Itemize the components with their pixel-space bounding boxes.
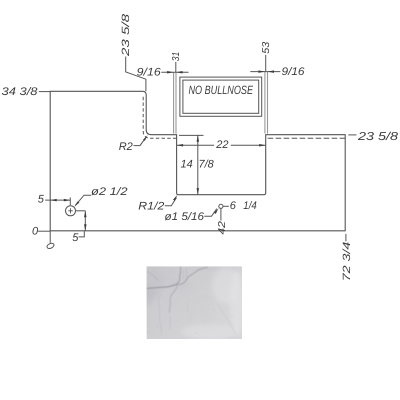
svg-text:31: 31: [171, 52, 182, 62]
dimension 14 7/8: [179, 135, 215, 194]
svg-text:ø1 5/16: ø1 5/16: [165, 211, 205, 223]
svg-text:7/8: 7/8: [199, 159, 215, 171]
svg-text:23 5/8: 23 5/8: [120, 14, 132, 58]
svg-text:6: 6: [230, 200, 237, 212]
dimension 22: [177, 139, 266, 151]
svg-text:R2: R2: [119, 141, 133, 153]
label 23 5/8 right: [348, 131, 398, 143]
hole 6 1/4 circle: [219, 200, 257, 212]
ordinate 42: [217, 208, 228, 234]
label R1/2 with leader: [138, 195, 177, 213]
svg-text:72 3/4: 72 3/4: [341, 242, 353, 282]
svg-text:23 5/8: 23 5/8: [357, 131, 399, 143]
marble sample swatch: [142, 264, 244, 340]
label R2 with leader: [119, 135, 148, 153]
dimension 9/16 right: [250, 66, 305, 78]
svg-text:14: 14: [181, 159, 193, 171]
svg-text:R1/2: R1/2: [138, 201, 164, 213]
hidden edge dashed left (R2 corner): [143, 97, 176, 139]
ordinate 0 origin: [32, 225, 55, 249]
hidden edge dashed right: [268, 137, 346, 139]
svg-text:5: 5: [72, 232, 79, 244]
countertop main outline: [50, 91, 345, 231]
label 72 3/4 rotated: [341, 234, 353, 281]
label 31 rotated: [171, 52, 182, 73]
svg-text:5: 5: [38, 194, 45, 206]
faucet hole circle: [66, 206, 76, 216]
label 34 3/8: [2, 86, 51, 98]
svg-text:22: 22: [215, 139, 228, 151]
label 53 rotated: [261, 41, 272, 71]
svg-text:9/16: 9/16: [137, 66, 162, 78]
svg-text:1/4: 1/4: [243, 200, 256, 212]
NO BULLNOSE box: [180, 77, 262, 116]
svg-text:42: 42: [217, 221, 228, 235]
label o2 1/2 with leader: [74, 186, 127, 207]
svg-text:34 3/8: 34 3/8: [2, 86, 39, 98]
right splash strip (double gray line): [265, 72, 268, 134]
label 23 5/8 top with leader: [120, 14, 146, 92]
svg-text:NO BULLNOSE: NO BULLNOSE: [189, 83, 254, 97]
left splash strip (double gray line): [174, 73, 176, 134]
label o1 5/16 with leader: [165, 208, 219, 223]
dimension 5 vertical: [72, 211, 86, 244]
dimension 9/16 left: [137, 66, 189, 78]
svg-text:ø2 1/2: ø2 1/2: [91, 186, 128, 198]
svg-text:53: 53: [261, 41, 272, 53]
dimension 5 horizontal: [38, 194, 71, 206]
svg-text:9/16: 9/16: [282, 66, 306, 78]
